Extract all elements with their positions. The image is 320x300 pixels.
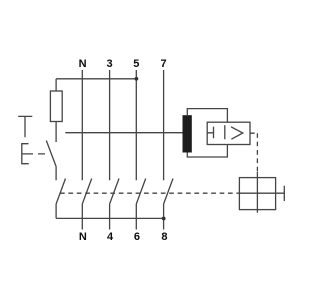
svg-text:6: 6 (134, 231, 140, 243)
svg-text:5: 5 (133, 58, 139, 70)
svg-text:N: N (79, 58, 87, 70)
svg-text:N: N (79, 231, 87, 243)
svg-text:3: 3 (107, 58, 113, 70)
svg-text:4: 4 (107, 231, 114, 243)
svg-text:8: 8 (161, 231, 167, 243)
svg-text:7: 7 (161, 58, 167, 70)
